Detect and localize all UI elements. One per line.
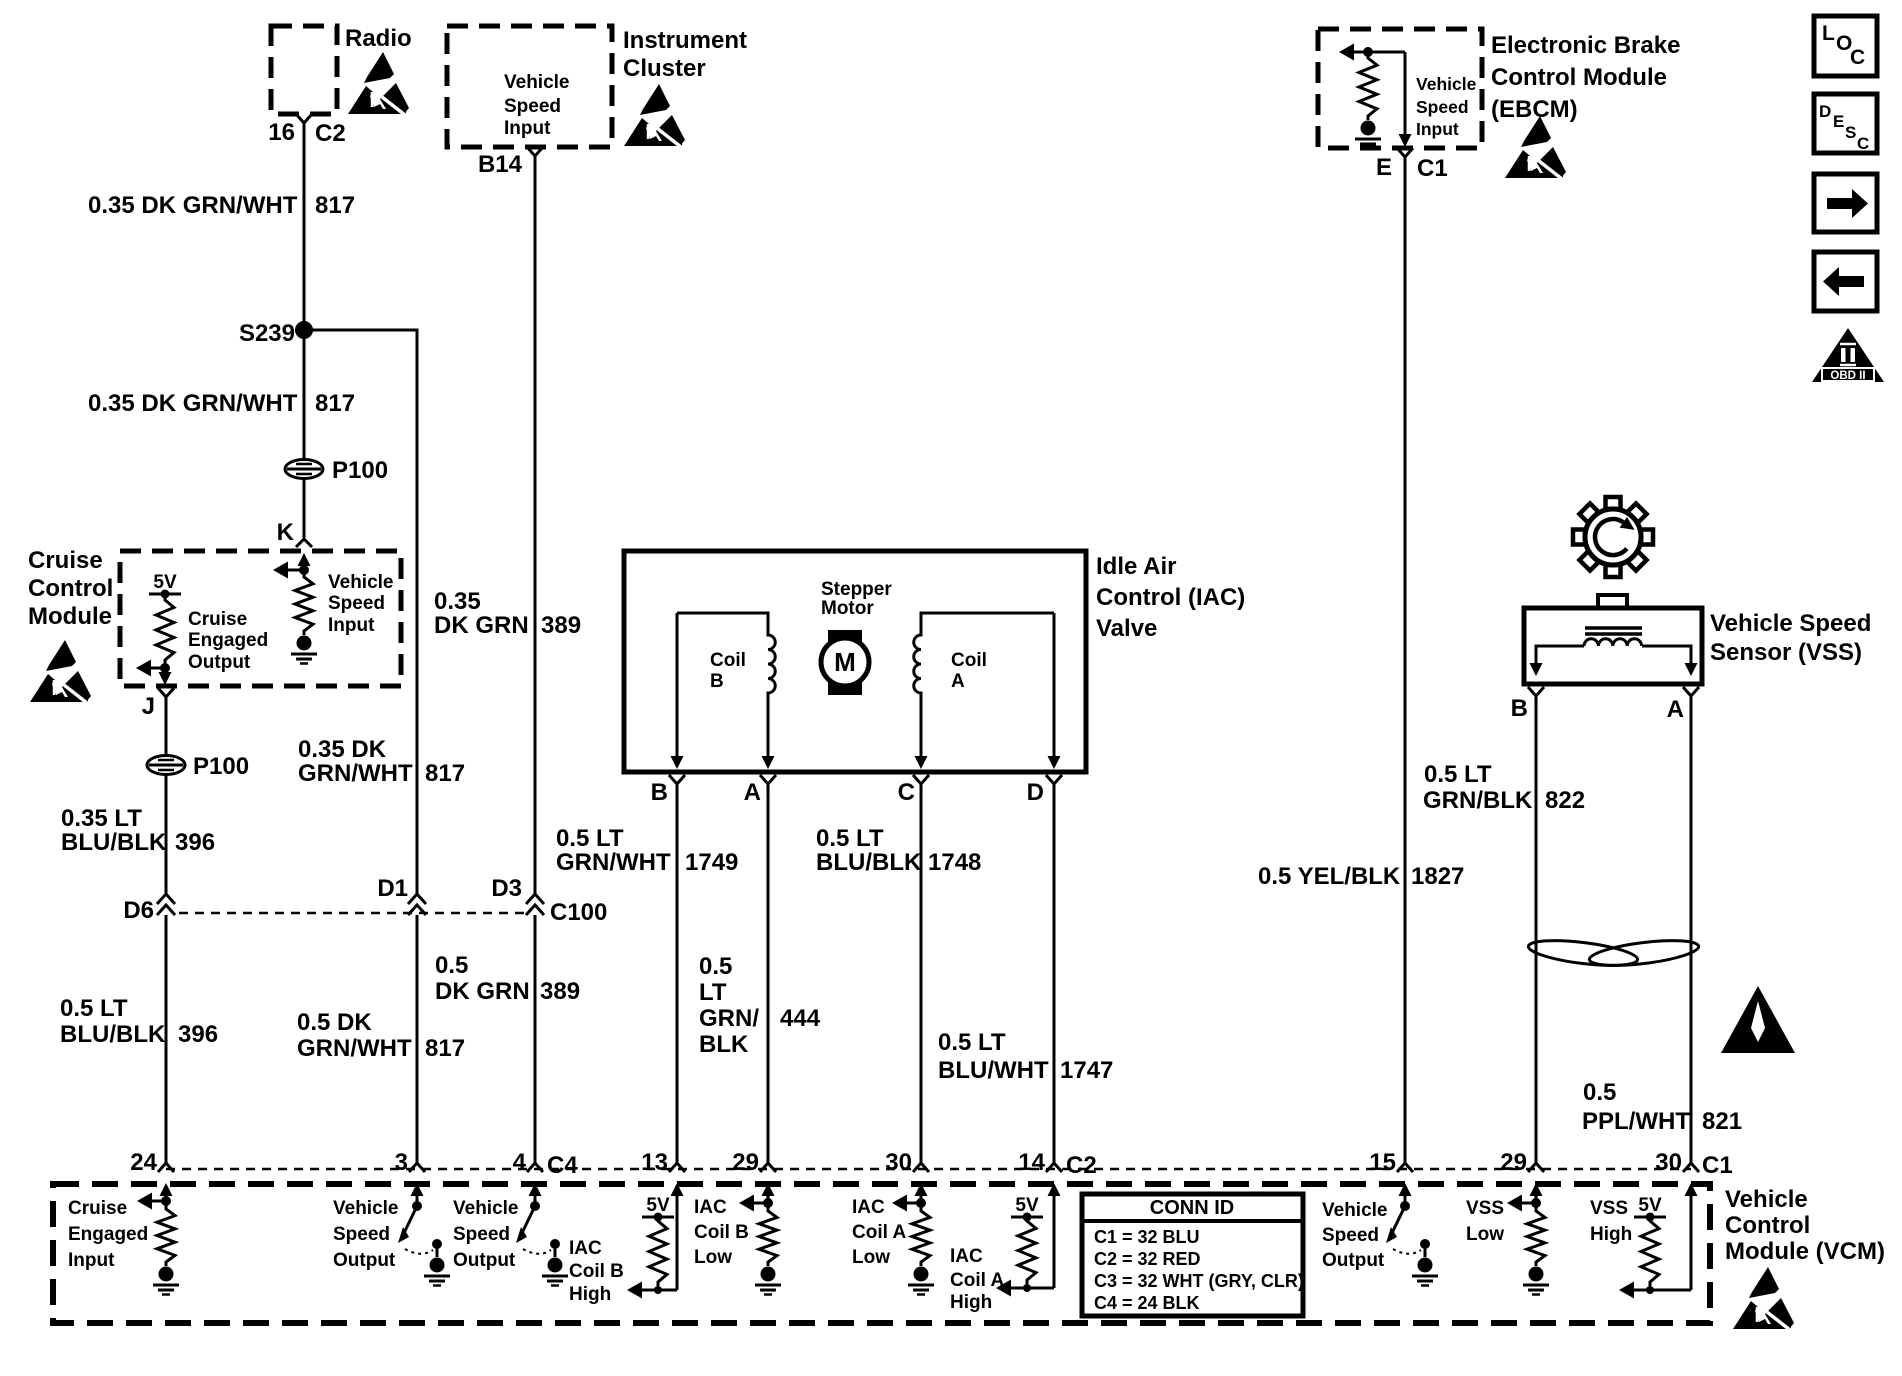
CONN ID table bbox=[1082, 1194, 1303, 1316]
svg-text:396: 396 bbox=[178, 1021, 218, 1048]
svg-text:13: 13 bbox=[641, 1149, 668, 1176]
wire 389 from D3 to VCM pin 4 bbox=[534, 915, 537, 1157]
connector pin 30 (VCM) at x=921 bbox=[913, 1157, 929, 1172]
svg-text:Speed: Speed bbox=[1322, 1225, 1379, 1246]
splice S239 bbox=[295, 321, 313, 339]
svg-text:C1: C1 bbox=[1417, 155, 1448, 182]
svg-text:Input: Input bbox=[504, 118, 551, 139]
VSS internal pickup coil bbox=[1585, 626, 1642, 630]
svg-text:Engaged: Engaged bbox=[188, 630, 268, 651]
connector pin 16 C2 (Radio) bbox=[296, 114, 312, 131]
IAC coil B bbox=[677, 613, 775, 757]
svg-text:BLU/WHT: BLU/WHT bbox=[938, 1057, 1049, 1084]
svg-text:(EBCM): (EBCM) bbox=[1491, 96, 1578, 123]
connector C100 dashed interface line bbox=[179, 912, 527, 915]
svg-text:K: K bbox=[277, 519, 295, 546]
svg-text:A: A bbox=[744, 779, 761, 806]
svg-text:GRN/BLK: GRN/BLK bbox=[1423, 787, 1533, 814]
svg-text:High: High bbox=[950, 1292, 992, 1313]
svg-text:Engaged: Engaged bbox=[68, 1224, 148, 1245]
connector C100 pin D6 bbox=[157, 894, 175, 915]
svg-text:3: 3 bbox=[395, 1149, 408, 1176]
svg-text:14: 14 bbox=[1018, 1149, 1045, 1176]
module Instrument Cluster (dashed box) bbox=[447, 26, 612, 147]
svg-text:Low: Low bbox=[1466, 1224, 1504, 1245]
VCM IAC coil A low circuit (pin 30) bbox=[915, 1183, 928, 1196]
svg-text:0.35 DK GRN/WHT: 0.35 DK GRN/WHT bbox=[88, 390, 298, 417]
connector pin B (VSS) bbox=[1528, 687, 1544, 704]
connector pin 13 (VCM) at x=677 bbox=[669, 1157, 685, 1172]
connector pin 29 (VCM) at x=768 bbox=[760, 1157, 776, 1172]
svg-text:VSS: VSS bbox=[1590, 1198, 1628, 1219]
svg-text:Input: Input bbox=[68, 1250, 115, 1271]
wire 822 from VSS pin B to VCM pin 29 bbox=[1535, 704, 1538, 1157]
svg-text:D3: D3 bbox=[491, 875, 522, 902]
svg-text:P100: P100 bbox=[193, 753, 249, 780]
svg-text:16: 16 bbox=[268, 119, 295, 146]
svg-text:BLU/BLK: BLU/BLK bbox=[60, 1021, 166, 1048]
cruise internal node with left arrow (vehicle speed input) bbox=[299, 565, 309, 575]
svg-text:0.5 LT: 0.5 LT bbox=[556, 825, 624, 852]
svg-text:0.35: 0.35 bbox=[434, 588, 481, 615]
svg-text:0.35 DK: 0.35 DK bbox=[298, 736, 387, 763]
svg-text:IAC: IAC bbox=[950, 1246, 983, 1267]
connector pin B14 (Instrument Cluster) bbox=[527, 147, 543, 164]
svg-text:C4: C4 bbox=[547, 1152, 578, 1179]
svg-text:0.5: 0.5 bbox=[699, 953, 732, 980]
svg-text:1747: 1747 bbox=[1060, 1057, 1113, 1084]
connector pin 3 (VCM) at x=417 bbox=[409, 1157, 425, 1172]
svg-text:817: 817 bbox=[315, 390, 355, 417]
svg-text:4: 4 bbox=[513, 1149, 527, 1176]
svg-text:Input: Input bbox=[1416, 119, 1459, 139]
wire 1827 from EBCM pin E to VCM pin 15 bbox=[1404, 165, 1407, 1157]
svg-text:BLU/BLK: BLU/BLK bbox=[816, 849, 922, 876]
svg-text:Speed: Speed bbox=[328, 593, 385, 614]
connector pin 29 (VCM) at x=1536 bbox=[1528, 1157, 1544, 1172]
svg-text:389: 389 bbox=[540, 978, 580, 1005]
wire 1748 from IAC pin C to VCM pin 30 bbox=[920, 792, 923, 1157]
svg-text:D: D bbox=[1819, 102, 1831, 121]
VCM vehicle speed output switch (pin 4) bbox=[529, 1183, 542, 1196]
svg-text:High: High bbox=[569, 1284, 611, 1305]
wire 817 branch from S239 to connector C100 pin D1 bbox=[304, 330, 417, 895]
IAC coil A bbox=[914, 613, 1054, 757]
svg-text:C2: C2 bbox=[1066, 1152, 1097, 1179]
svg-text:1749: 1749 bbox=[685, 849, 738, 876]
svg-text:Output: Output bbox=[453, 1250, 516, 1271]
cruise internal resistor (vehicle speed input) bbox=[295, 573, 313, 635]
svg-text:PPL/WHT: PPL/WHT bbox=[1582, 1108, 1690, 1135]
svg-text:Sensor (VSS): Sensor (VSS) bbox=[1710, 639, 1862, 666]
symbol OBD II bbox=[1812, 328, 1884, 382]
svg-text:E: E bbox=[1833, 112, 1844, 131]
grommet P100 (radio circuit) bbox=[285, 460, 323, 479]
connector pin C (IAC) bbox=[913, 775, 929, 792]
svg-text:Coil A: Coil A bbox=[852, 1222, 906, 1243]
button LOC bbox=[1814, 16, 1877, 76]
svg-text:821: 821 bbox=[1702, 1108, 1742, 1135]
connector pin 15 (VCM) at x=1405 bbox=[1397, 1157, 1413, 1172]
stepper motor M symbol bbox=[828, 630, 862, 695]
cruise internal wire down to pin J with arrow bbox=[164, 668, 167, 676]
svg-text:DK GRN: DK GRN bbox=[434, 612, 529, 639]
connector pin A (IAC) bbox=[760, 775, 776, 792]
VCM vehicle speed output switch (pin 3) bbox=[411, 1183, 424, 1196]
svg-text:C2: C2 bbox=[315, 120, 346, 147]
svg-text:817: 817 bbox=[425, 760, 465, 787]
cruise internal output node with left arrow bbox=[160, 663, 170, 673]
svg-text:Module: Module bbox=[28, 603, 112, 630]
connector pin 14 (VCM) at x=1054 bbox=[1046, 1157, 1062, 1172]
connector pin A (VSS) bbox=[1683, 687, 1699, 704]
svg-text:OBD II: OBD II bbox=[1830, 370, 1865, 382]
svg-text:BLK: BLK bbox=[699, 1031, 749, 1058]
connector C100 pin D3 bbox=[526, 894, 544, 915]
svg-text:Radio: Radio bbox=[345, 25, 412, 52]
warning triangle bbox=[1721, 986, 1795, 1053]
wire 817 from Radio pin 16 to splice S239 bbox=[303, 131, 306, 330]
svg-text:LT: LT bbox=[699, 979, 727, 1006]
svg-text:0.5 LT: 0.5 LT bbox=[1424, 761, 1492, 788]
svg-text:Instrument: Instrument bbox=[623, 27, 747, 54]
svg-text:C: C bbox=[898, 779, 915, 806]
connector pin 4 (VCM) at x=535 bbox=[527, 1157, 543, 1172]
ESD warning symbol (EBCM) bbox=[1505, 116, 1566, 179]
ESD warning symbol (Cruise Control Module) bbox=[30, 640, 91, 703]
cruise internal vehicle speed input: arrow down from pin K bbox=[298, 553, 311, 566]
svg-text:B: B bbox=[1511, 695, 1528, 722]
svg-text:0.5 YEL/BLK: 0.5 YEL/BLK bbox=[1258, 863, 1401, 890]
svg-text:29: 29 bbox=[732, 1149, 759, 1176]
svg-text:Control: Control bbox=[28, 575, 113, 602]
grommet P100 (cruise circuit) bbox=[147, 756, 185, 775]
svg-text:0.5 LT: 0.5 LT bbox=[60, 995, 128, 1022]
module Electronic Brake Control Module (dashed box) bbox=[1318, 29, 1482, 148]
svg-text:Motor: Motor bbox=[821, 598, 874, 619]
svg-text:Output: Output bbox=[188, 652, 251, 673]
VCM vehicle speed output switch (pin 15) bbox=[1399, 1183, 1412, 1196]
wire 1747 from IAC pin D to VCM pin 14 bbox=[1053, 792, 1056, 1157]
wire 1749 from IAC pin B to VCM pin 13 bbox=[676, 792, 679, 1157]
svg-text:Cluster: Cluster bbox=[623, 55, 706, 82]
svg-text:High: High bbox=[1590, 1224, 1632, 1245]
wire 396 from pin J to grommet P100 bbox=[165, 705, 168, 755]
button back (left arrow) bbox=[1814, 252, 1877, 311]
wire 821 from VSS pin A to VCM pin 30 bbox=[1690, 704, 1693, 1157]
svg-text:0.5 DK: 0.5 DK bbox=[297, 1009, 372, 1036]
svg-text:Low: Low bbox=[852, 1247, 890, 1268]
svg-text:0.5: 0.5 bbox=[435, 952, 468, 979]
svg-text:Coil B: Coil B bbox=[569, 1261, 624, 1282]
module Cruise Control Module (dashed box) bbox=[120, 551, 401, 686]
svg-text:DK GRN: DK GRN bbox=[435, 978, 530, 1005]
svg-text:M: M bbox=[834, 647, 856, 677]
svg-text:0.5 LT: 0.5 LT bbox=[816, 825, 884, 852]
svg-text:L: L bbox=[1822, 22, 1835, 45]
svg-text:GRN/WHT: GRN/WHT bbox=[297, 1035, 412, 1062]
svg-text:S: S bbox=[1845, 123, 1856, 142]
svg-text:0.5: 0.5 bbox=[1583, 1079, 1616, 1106]
wire 817 from S239 down to grommet P100 bbox=[303, 339, 306, 459]
svg-text:29: 29 bbox=[1500, 1149, 1527, 1176]
svg-text:1827: 1827 bbox=[1411, 863, 1464, 890]
svg-text:0.5 LT: 0.5 LT bbox=[938, 1029, 1006, 1056]
svg-text:822: 822 bbox=[1545, 787, 1585, 814]
svg-text:817: 817 bbox=[425, 1035, 465, 1062]
svg-text:CONN ID: CONN ID bbox=[1150, 1197, 1234, 1219]
svg-text:Vehicle: Vehicle bbox=[1725, 1186, 1808, 1213]
connector pin 24 (VCM) at x=166 bbox=[158, 1157, 174, 1172]
svg-text:Low: Low bbox=[694, 1247, 732, 1268]
svg-text:GRN/: GRN/ bbox=[699, 1005, 759, 1032]
svg-text:D6: D6 bbox=[123, 897, 154, 924]
wire 817 from P100 to Cruise Control Module pin K bbox=[303, 478, 306, 540]
svg-text:Speed: Speed bbox=[333, 1224, 390, 1245]
svg-text:C3 = 32 WHT (GRY, CLR): C3 = 32 WHT (GRY, CLR) bbox=[1094, 1271, 1304, 1291]
svg-text:Input: Input bbox=[328, 615, 375, 636]
svg-text:Output: Output bbox=[1322, 1250, 1385, 1271]
ESD warning symbol (Radio) bbox=[348, 52, 409, 115]
cruise internal ground bbox=[297, 636, 312, 651]
module Vehicle Control Module (dashed box) bbox=[53, 1184, 1710, 1323]
svg-text:817: 817 bbox=[315, 192, 355, 219]
svg-text:Coil B: Coil B bbox=[694, 1222, 749, 1243]
svg-text:GRN/WHT: GRN/WHT bbox=[298, 760, 413, 787]
module Vehicle Speed Sensor box bbox=[1598, 595, 1627, 608]
EBCM internal vehicle speed input circuit bbox=[1339, 44, 1354, 61]
svg-text:Vehicle: Vehicle bbox=[333, 1198, 399, 1219]
connector pin D (IAC) bbox=[1046, 775, 1062, 792]
VCM connector interface dashed line bbox=[166, 1168, 1691, 1171]
svg-text:Coil A: Coil A bbox=[950, 1270, 1004, 1291]
svg-text:C4 = 24 BLK: C4 = 24 BLK bbox=[1094, 1293, 1200, 1313]
svg-text:B: B bbox=[710, 671, 724, 692]
svg-text:Control Module: Control Module bbox=[1491, 64, 1667, 91]
svg-text:Vehicle: Vehicle bbox=[1322, 1200, 1388, 1221]
cruise internal resistor (cruise engaged output) bbox=[156, 596, 174, 664]
wire 389 from Instrument Cluster B14 to connector C100 pin D3 bbox=[534, 164, 537, 895]
svg-text:444: 444 bbox=[780, 1005, 821, 1032]
connector pin E C1 (EBCM) bbox=[1397, 148, 1413, 165]
svg-text:Speed: Speed bbox=[453, 1224, 510, 1245]
VCM IAC coil B low circuit (pin 29) bbox=[762, 1183, 775, 1196]
connector C100 pin D1 bbox=[408, 894, 426, 915]
svg-text:C100: C100 bbox=[550, 899, 607, 926]
ESD warning symbol (VCM) bbox=[1733, 1267, 1794, 1330]
svg-text:BLU/BLK: BLU/BLK bbox=[61, 829, 167, 856]
wire 396 from P100 to connector C100 pin D6 bbox=[165, 774, 168, 895]
svg-text:Vehicle: Vehicle bbox=[328, 572, 394, 593]
svg-text:Control: Control bbox=[1725, 1212, 1810, 1239]
svg-text:C1 = 32 BLU: C1 = 32 BLU bbox=[1094, 1227, 1200, 1247]
svg-text:C: C bbox=[1850, 46, 1865, 69]
svg-text:Coil: Coil bbox=[710, 650, 746, 671]
svg-text:Vehicle: Vehicle bbox=[1416, 74, 1477, 94]
svg-text:D: D bbox=[1027, 779, 1044, 806]
svg-text:Vehicle Speed: Vehicle Speed bbox=[1710, 610, 1871, 637]
svg-text:GRN/WHT: GRN/WHT bbox=[556, 849, 671, 876]
connector pin K (Cruise Control Module) bbox=[296, 539, 312, 547]
VCM VSS low circuit (pin 29) bbox=[1530, 1183, 1543, 1196]
svg-text:Coil: Coil bbox=[951, 650, 987, 671]
svg-text:30: 30 bbox=[885, 1149, 912, 1176]
svg-text:0.35 DK GRN/WHT: 0.35 DK GRN/WHT bbox=[88, 192, 298, 219]
svg-text:B: B bbox=[651, 779, 668, 806]
svg-text:Cruise: Cruise bbox=[28, 547, 103, 574]
wire 817 from D1 to VCM pin 3 bbox=[416, 915, 419, 1157]
module Idle Air Control (IAC) Valve box bbox=[624, 551, 1086, 772]
svg-text:IAC: IAC bbox=[852, 1197, 885, 1218]
svg-text:Control (IAC): Control (IAC) bbox=[1096, 584, 1245, 611]
svg-text:Vehicle: Vehicle bbox=[504, 72, 570, 93]
svg-text:Cruise: Cruise bbox=[68, 1198, 127, 1219]
ESD warning symbol (Instrument Cluster) bbox=[624, 84, 685, 147]
svg-text:IAC: IAC bbox=[694, 1197, 727, 1218]
svg-text:Valve: Valve bbox=[1096, 615, 1157, 642]
svg-text:30: 30 bbox=[1655, 1149, 1682, 1176]
VSS reluctor gear symbol bbox=[1573, 497, 1653, 577]
svg-text:Output: Output bbox=[333, 1250, 396, 1271]
svg-text:Vehicle: Vehicle bbox=[453, 1198, 519, 1219]
svg-text:Idle Air: Idle Air bbox=[1096, 553, 1176, 580]
svg-text:VSS: VSS bbox=[1466, 1198, 1504, 1219]
svg-text:C1: C1 bbox=[1702, 1152, 1733, 1179]
svg-text:B14: B14 bbox=[478, 151, 523, 178]
svg-text:Cruise: Cruise bbox=[188, 609, 247, 630]
connector pin J (Cruise Control Module) bbox=[158, 688, 174, 705]
svg-text:A: A bbox=[1667, 696, 1684, 723]
svg-text:Module (VCM): Module (VCM) bbox=[1725, 1238, 1885, 1265]
svg-text:1748: 1748 bbox=[928, 849, 981, 876]
wire 444 from IAC pin A to VCM pin 29 bbox=[767, 792, 770, 1157]
svg-text:Electronic Brake: Electronic Brake bbox=[1491, 32, 1680, 59]
svg-text:A: A bbox=[951, 671, 965, 692]
svg-text:15: 15 bbox=[1369, 1149, 1396, 1176]
twisted pair symbol on VSS wires bbox=[1527, 936, 1639, 970]
svg-text:396: 396 bbox=[175, 829, 215, 856]
svg-text:S239: S239 bbox=[239, 320, 295, 347]
svg-text:24: 24 bbox=[130, 1149, 157, 1176]
wire 396 from D6 to VCM pin 24 bbox=[165, 915, 168, 1157]
svg-text:Speed: Speed bbox=[504, 96, 561, 117]
button DESC bbox=[1814, 94, 1877, 153]
connector pin 30 (VCM) at x=1691 bbox=[1683, 1157, 1699, 1172]
svg-text:IAC: IAC bbox=[569, 1238, 602, 1259]
svg-text:J: J bbox=[142, 693, 155, 720]
svg-text:C2 = 32 RED: C2 = 32 RED bbox=[1094, 1249, 1201, 1269]
svg-text:0.35 LT: 0.35 LT bbox=[61, 805, 142, 832]
svg-text:D1: D1 bbox=[377, 875, 408, 902]
svg-text:P100: P100 bbox=[332, 457, 388, 484]
svg-text:E: E bbox=[1376, 154, 1392, 181]
svg-text:Speed: Speed bbox=[1416, 97, 1469, 117]
svg-text:Stepper: Stepper bbox=[821, 579, 892, 600]
VCM cruise engaged input circuit (pin 24) bbox=[160, 1183, 173, 1196]
connector pin B (IAC) bbox=[669, 775, 685, 792]
svg-text:C: C bbox=[1857, 134, 1869, 153]
svg-text:389: 389 bbox=[541, 612, 581, 639]
button next (right arrow) bbox=[1814, 174, 1877, 232]
module Radio (dashed box) bbox=[271, 26, 337, 114]
